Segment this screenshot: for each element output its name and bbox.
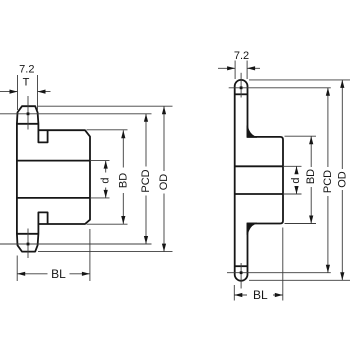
right PCD dim line xyxy=(327,88,329,273)
svg-text:7.2: 7.2 xyxy=(19,64,34,76)
svg-text:d: d xyxy=(290,177,302,183)
arrow BL-left right xyxy=(82,272,90,276)
right bore bottom xyxy=(235,193,283,195)
arrow OD-left bottom xyxy=(162,244,166,252)
svg-text:7.2: 7.2 xyxy=(234,50,249,62)
right centerline horizontal top (PCD) xyxy=(229,87,331,89)
right d dim line xyxy=(296,166,298,194)
arrow BD-right bottom xyxy=(309,216,313,224)
left bore top xyxy=(17,160,90,162)
left keyway top xyxy=(38,130,47,142)
left BD ext top xyxy=(87,129,128,131)
arrow T left xyxy=(10,90,18,94)
right OD dim line xyxy=(341,80,343,280)
right sprocket silhouette xyxy=(235,80,283,281)
right BL ext left xyxy=(233,285,235,301)
left plate top edge xyxy=(17,123,39,125)
right centerline dot bottom xyxy=(240,271,243,274)
left sprocket silhouette xyxy=(17,106,90,251)
arrow PCD-right bottom xyxy=(326,265,330,273)
right BL dim line xyxy=(234,294,282,296)
arrow OD-right bottom xyxy=(340,272,344,280)
svg-text:OD: OD xyxy=(158,174,170,191)
left OD dim line xyxy=(163,106,165,251)
left bore bottom xyxy=(17,197,90,199)
arrow BD-left bottom xyxy=(121,216,125,224)
arrow BL-left left xyxy=(17,272,25,276)
arrow BD-right top xyxy=(309,136,313,144)
right BD ext bottom xyxy=(285,223,317,225)
left centerline vertical top xyxy=(27,96,29,130)
left plate bottom edge xyxy=(17,233,39,235)
svg-text:PCD: PCD xyxy=(322,170,334,193)
left d ext bottom xyxy=(90,197,110,199)
svg-text:OD: OD xyxy=(336,171,348,188)
right 7.2 extension right xyxy=(246,61,248,80)
right centerline vertical top xyxy=(240,73,242,98)
right centerline horizontal bottom (PCD) xyxy=(227,272,331,274)
right bore top xyxy=(235,165,283,167)
left BD dim line xyxy=(122,130,124,224)
left d ext top xyxy=(90,160,110,162)
arrow OD-right top xyxy=(340,80,344,88)
arrow BD-left top xyxy=(121,130,125,138)
left BL dim line xyxy=(17,273,90,275)
svg-text:BD: BD xyxy=(305,169,317,184)
right tooth base bottom xyxy=(235,265,248,267)
right d ext bottom xyxy=(283,193,302,195)
arrow PCD-left bottom xyxy=(144,236,148,244)
left BD ext bottom xyxy=(87,223,128,225)
right BD dim line xyxy=(310,136,312,223)
svg-text:d: d xyxy=(100,177,112,183)
left keyway bottom xyxy=(38,212,47,224)
left BL ext left xyxy=(16,256,18,282)
left centerline horizontal top (PCD) xyxy=(0,113,152,115)
svg-text:T: T xyxy=(23,77,30,89)
arrow d-right bottom xyxy=(294,186,298,194)
right hub fillet top xyxy=(247,126,257,138)
arrow 7.2-right right xyxy=(247,66,255,70)
svg-text:PCD: PCD xyxy=(140,169,152,192)
left PCD dim line xyxy=(145,114,147,244)
left BL ext right xyxy=(89,229,91,281)
arrow 7.2-right left xyxy=(227,66,235,70)
arrow d-right top xyxy=(294,166,298,174)
svg-text:BD: BD xyxy=(117,173,129,188)
arrow BL-right left xyxy=(234,293,242,297)
right BD ext top xyxy=(285,135,317,137)
left centerline horizontal bottom (PCD) xyxy=(0,243,152,245)
left d dim line xyxy=(105,161,107,198)
arrow PCD-right top xyxy=(326,88,330,96)
left centerline vertical bottom xyxy=(27,229,29,259)
left 7.2 extension left xyxy=(17,75,19,110)
arrow PCD-left top xyxy=(144,114,148,122)
arrow d-left top xyxy=(104,161,108,169)
right OD ext top xyxy=(249,79,350,81)
right centerline dot top xyxy=(240,86,243,89)
left centerline dot top xyxy=(27,112,30,115)
left OD ext top xyxy=(38,105,173,107)
left centerline dot bottom xyxy=(27,243,30,246)
right OD ext bottom xyxy=(249,279,350,281)
left 7.2 dim line tails xyxy=(0,91,51,93)
left 7.2 extension right xyxy=(37,75,39,110)
svg-text:BL: BL xyxy=(51,267,66,281)
svg-text:BL: BL xyxy=(253,288,268,302)
arrow T right xyxy=(38,90,46,94)
left OD ext bottom xyxy=(38,251,173,253)
right BL ext right xyxy=(282,228,284,301)
arrow OD-left top xyxy=(162,106,166,114)
right hub fillet bottom xyxy=(247,223,257,235)
arrow BL-right right xyxy=(275,293,283,297)
right d ext top xyxy=(283,165,302,167)
right tooth base top xyxy=(235,93,248,95)
right 7.2 dim line tails xyxy=(218,67,260,69)
right centerline vertical bottom xyxy=(240,263,242,289)
arrow d-left bottom xyxy=(104,190,108,198)
right 7.2 extension left xyxy=(234,61,236,80)
